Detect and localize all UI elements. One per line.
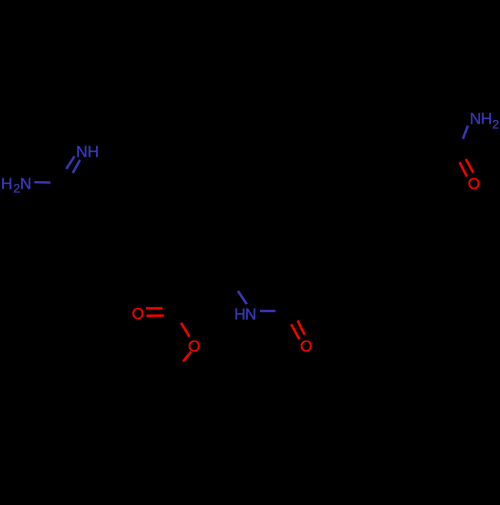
- amidine C=N double bond outer line: [66, 156, 74, 169]
- svg-text:2: 2: [492, 117, 499, 131]
- amide C=O double bond outer line (top right): [466, 159, 473, 172]
- ester C=O double bond upper line: [146, 307, 163, 309]
- svg-text:H: H: [234, 306, 245, 323]
- amide C-N bond (top right): [463, 126, 468, 139]
- svg-text:H: H: [1, 176, 12, 193]
- amide C=O double bond inner line (top right): [460, 162, 467, 176]
- svg-text:O: O: [468, 176, 480, 193]
- ester O-CH2 bond: [183, 352, 191, 362]
- svg-text:H: H: [481, 111, 492, 128]
- svg-text:N: N: [20, 176, 31, 193]
- amidine N-C single bond: [34, 181, 50, 184]
- svg-text:NH: NH: [76, 144, 99, 161]
- ester C-O bond: [181, 323, 189, 337]
- acetamido N-C bond: [260, 310, 276, 312]
- ester C=O double bond lower line: [146, 314, 163, 317]
- acetamido CH2-N bond: [238, 291, 247, 304]
- amidine C=N double bond inner line: [73, 160, 80, 173]
- svg-text:O: O: [132, 306, 144, 323]
- acetamido C=O double bond inner line: [291, 324, 299, 339]
- acetamido C=O double bond outer line: [298, 321, 305, 335]
- svg-text:O: O: [300, 338, 312, 355]
- svg-text:N: N: [470, 111, 481, 128]
- svg-text:N: N: [245, 306, 256, 323]
